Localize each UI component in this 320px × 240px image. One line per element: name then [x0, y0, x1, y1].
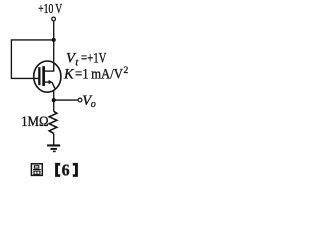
- ground bar 1: [47, 144, 60, 146]
- svg-text:K: K: [63, 67, 75, 83]
- caption left lenticular bracket: [55, 163, 60, 177]
- caption glyph tu inner bottom box: [34, 171, 40, 174]
- caption glyph tu inner bottom tick: [36, 171, 38, 174]
- svg-text:o: o: [91, 99, 96, 110]
- transistor Q1 channel bar: [42, 66, 45, 86]
- transistor Q1 body circle: [34, 61, 61, 92]
- transistor Q1 drain lead: [45, 70, 55, 72]
- resistor R1 zigzag: [49, 111, 57, 133]
- node source junction: [52, 98, 56, 102]
- supply terminal: [52, 17, 56, 21]
- svg-text:=+1V: =+1V: [81, 51, 107, 67]
- caption glyph tu inner mid line: [33, 169, 41, 171]
- transistor Q1 source lead: [45, 81, 50, 83]
- node drain junction: [52, 38, 56, 42]
- wire source to output node: [53, 90, 55, 100]
- wire feedback gate-drain: [11, 40, 53, 79]
- ground bar 3: [53, 151, 56, 153]
- svg-text:=1 mA/V: =1 mA/V: [75, 67, 123, 83]
- svg-text:+10 V: +10 V: [38, 2, 62, 17]
- wire supply to drain: [53, 21, 55, 71]
- caption right lenticular bracket: [73, 163, 78, 177]
- transistor Q1 source lead bend: [52, 82, 55, 89]
- wire node to resistor: [53, 100, 55, 112]
- caption glyph tu inner top box: [34, 166, 38, 168]
- wire to output terminal: [54, 99, 78, 101]
- ground bar 2: [51, 148, 57, 150]
- output terminal: [78, 98, 82, 102]
- wire resistor to ground: [53, 134, 55, 145]
- svg-text:2: 2: [124, 66, 129, 76]
- transistor Q1 gate bar: [38, 67, 40, 85]
- caption glyph tu (figure) outer box: [31, 164, 42, 176]
- svg-text:1MΩ: 1MΩ: [21, 114, 48, 130]
- transistor Q1 source arrow: [49, 80, 53, 84]
- svg-text:6: 6: [62, 160, 70, 179]
